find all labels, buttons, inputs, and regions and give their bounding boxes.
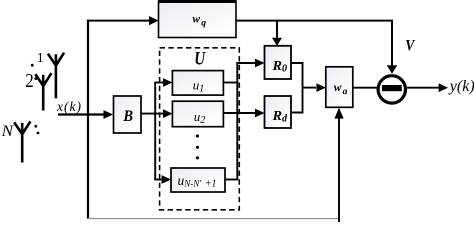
wire u_last output to right bus xyxy=(225,179,238,181)
feedback wire vertical into w_a xyxy=(338,118,340,222)
wire w_a output to summation xyxy=(353,87,377,89)
block w_a xyxy=(326,67,353,108)
svg-text:B: B xyxy=(122,108,133,125)
wire bus to u_last xyxy=(154,179,161,181)
left bus xyxy=(154,83,156,180)
wire summation output y(k) xyxy=(407,87,438,89)
svg-text:U: U xyxy=(194,48,206,69)
summation circle with minus xyxy=(378,76,405,103)
wire R_0 output xyxy=(291,63,303,88)
vertical dots xyxy=(196,134,199,137)
wire bus into R_0 xyxy=(236,62,255,64)
block R_0 xyxy=(265,46,292,79)
block R_d xyxy=(265,96,292,128)
wire R_d output xyxy=(291,88,303,113)
wire u1 output to right bus xyxy=(223,82,238,84)
svg-text:y(k): y(k) xyxy=(448,78,474,95)
wire merge into w_a xyxy=(303,87,317,89)
wire down into summation xyxy=(391,21,393,66)
svg-text:V: V xyxy=(405,36,415,55)
wire bus to u1 xyxy=(154,82,163,84)
branch down into R_0 xyxy=(276,21,278,39)
feedback wire bottom xyxy=(88,218,339,220)
dashed box U xyxy=(160,48,240,210)
svg-text:x(k): x(k) xyxy=(56,99,82,114)
wire u2 output into R_d xyxy=(223,112,255,114)
block u1 xyxy=(172,71,223,96)
antenna N xyxy=(14,121,30,162)
antenna 1 xyxy=(48,53,64,99)
svg-text:2: 2 xyxy=(25,70,34,92)
svg-text:1: 1 xyxy=(37,51,44,66)
wire top to w_q xyxy=(87,20,150,22)
block u2 xyxy=(172,101,223,127)
svg-text:N: N xyxy=(1,123,15,140)
block w_q xyxy=(159,2,237,38)
wire x(k) into B xyxy=(58,113,105,115)
wire vertical branch x=88 (top to bottom feedback) xyxy=(87,20,89,219)
block u_N-N'+1 xyxy=(171,168,225,192)
dot xyxy=(34,77,37,80)
dots between 2 and N xyxy=(34,125,37,128)
wire w_q output to top right xyxy=(236,20,393,22)
wire B output into u2 xyxy=(141,113,163,115)
right bus xyxy=(236,63,238,180)
dot between 1 and 2 xyxy=(31,64,34,67)
block B xyxy=(114,96,142,133)
antenna 2 xyxy=(35,73,51,110)
